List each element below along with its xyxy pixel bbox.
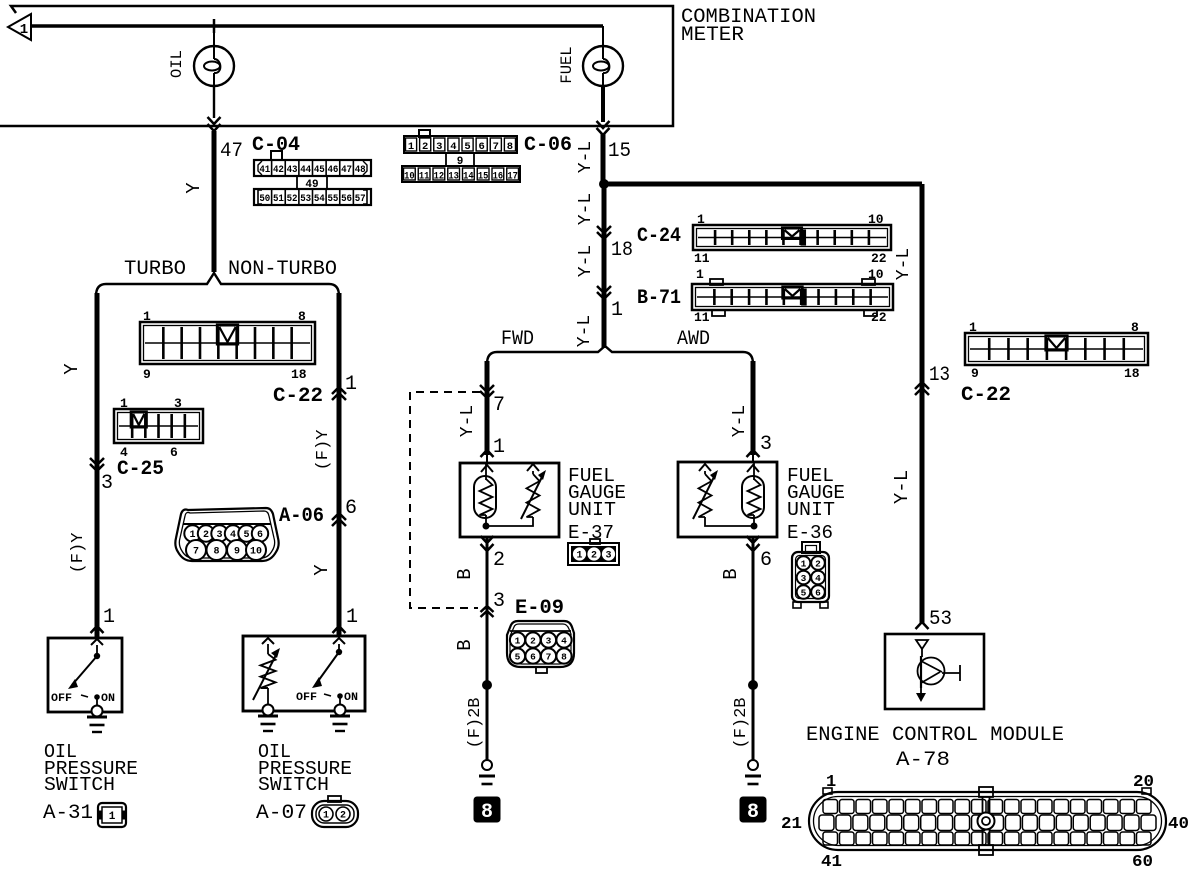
svg-text:42: 42 [273, 164, 284, 176]
wire label Y-L (right bus) [894, 248, 914, 280]
svg-text:B: B [454, 639, 476, 650]
svg-text:44: 44 [300, 164, 311, 176]
ECM input triangle [916, 640, 928, 649]
svg-text:SWITCH: SWITCH [44, 774, 115, 796]
svg-text:Y-L: Y-L [575, 315, 595, 347]
harness arrow 3 (TURBO) [90, 458, 113, 495]
svg-text:4: 4 [561, 635, 567, 646]
connector C-24 label [637, 225, 681, 248]
svg-text:1: 1 [345, 373, 357, 396]
svg-text:52: 52 [287, 193, 298, 205]
combination meter box [0, 6, 673, 126]
pin arrow 1 into E-37 [481, 436, 506, 463]
ground splice node (AWD) [748, 680, 758, 690]
E-37 sender resistor in float (capsule) [474, 463, 496, 523]
ground ref 8 (FWD) [474, 797, 500, 824]
A-07 switch symbol [312, 638, 345, 704]
svg-text:10: 10 [868, 267, 884, 282]
svg-text:6: 6 [345, 497, 357, 520]
svg-text:22: 22 [871, 251, 887, 266]
svg-text:1: 1 [408, 141, 414, 153]
E-36 internal wire [705, 517, 754, 526]
A-07 sender resistor (variable) [253, 638, 280, 705]
svg-text:1: 1 [493, 436, 505, 459]
wire label Y-L [576, 141, 596, 173]
label FUEL GAUGE UNIT E-37 [568, 465, 626, 544]
svg-text:47: 47 [341, 164, 352, 176]
svg-text:OFF: OFF [296, 692, 317, 704]
svg-text:Y: Y [61, 363, 83, 375]
E-37 variable resistor [521, 464, 546, 519]
svg-text:14: 14 [463, 172, 474, 183]
pin label 15 [608, 140, 631, 163]
svg-text:7: 7 [193, 547, 199, 558]
svg-text:50: 50 [259, 193, 270, 205]
C-24 pin labels [694, 212, 887, 266]
svg-text:8: 8 [298, 309, 306, 324]
wire Y-L center vertical to FWD/AWD split [602, 184, 607, 348]
indicator lamp OIL [194, 26, 234, 86]
svg-text:1: 1 [120, 396, 128, 411]
svg-text:46: 46 [327, 164, 338, 176]
svg-text:16: 16 [493, 172, 504, 183]
svg-text:11: 11 [419, 172, 430, 183]
wire AWD branch [751, 361, 756, 455]
svg-text:13: 13 [448, 172, 459, 183]
svg-text:1: 1 [323, 811, 329, 822]
svg-text:C-04: C-04 [252, 134, 300, 157]
connector C-25 label [117, 458, 164, 481]
wire label (F)2B [732, 697, 751, 748]
svg-text:B: B [454, 568, 476, 579]
svg-text:9: 9 [234, 547, 240, 558]
svg-text:A-07: A-07 [256, 802, 307, 825]
engine control module box [885, 634, 984, 709]
label NON-TURBO [228, 258, 337, 281]
pin arrow 3 into E-36 [747, 433, 773, 462]
wire label Y-L [576, 245, 596, 277]
wire E-37 pin 2 to ground [481, 536, 494, 765]
label OFF [51, 693, 72, 705]
svg-text:7: 7 [493, 141, 499, 153]
svg-text:Y-L: Y-L [730, 405, 750, 437]
label OIL PRESSURE SWITCH (A-07) [258, 741, 352, 796]
svg-text:51: 51 [273, 193, 284, 205]
svg-text:8: 8 [481, 801, 493, 824]
svg-text:1: 1 [826, 773, 836, 792]
E-36 sender resistor in float (capsule) [742, 463, 764, 523]
svg-text:17: 17 [507, 172, 518, 183]
svg-text:10: 10 [404, 172, 415, 183]
harness arrow 1 [597, 286, 623, 322]
svg-text:E-37: E-37 [568, 522, 614, 544]
svg-text:(F)2B: (F)2B [466, 697, 485, 748]
label OIL (vertical) [168, 50, 186, 78]
oil pressure switch A-07 box [243, 636, 365, 711]
svg-text:6: 6 [760, 549, 772, 572]
split bracket FWD/AWD [487, 346, 753, 364]
label OFF [296, 692, 317, 704]
wire label Y (TURBO) [61, 363, 83, 375]
E-36 node (junction) [751, 523, 758, 530]
svg-text:3: 3 [493, 590, 505, 613]
label ON [101, 693, 115, 705]
svg-text:Y-L: Y-L [894, 248, 914, 280]
svg-text:1: 1 [696, 267, 704, 282]
connector C-22 (left) label [273, 385, 323, 408]
ground ref 8 (AWD) [740, 797, 766, 824]
svg-text:(F)Y: (F)Y [69, 533, 88, 574]
svg-text:18: 18 [1124, 366, 1140, 381]
svg-text:48: 48 [355, 164, 366, 176]
connector A-31 label [43, 802, 93, 825]
svg-text:3: 3 [436, 141, 442, 153]
ground at A-31 [87, 706, 107, 733]
svg-text:10: 10 [868, 212, 884, 227]
svg-text:1: 1 [801, 558, 807, 569]
pin label 47 [220, 140, 243, 163]
svg-text:11: 11 [694, 310, 710, 325]
svg-text:1: 1 [697, 212, 705, 227]
junction tick at OIL branch [213, 19, 216, 33]
svg-text:18: 18 [291, 367, 307, 382]
fuel gauge unit E-37 box [460, 463, 559, 537]
split bracket TURBO/NON-TURBO [96, 273, 339, 296]
svg-text:9: 9 [971, 366, 979, 381]
pin arrow 1 into A-07 [333, 606, 359, 633]
svg-text:53: 53 [929, 608, 952, 631]
svg-text:C-22: C-22 [961, 384, 1011, 407]
svg-text:18: 18 [611, 239, 633, 262]
svg-text:3: 3 [801, 573, 807, 584]
svg-text:2: 2 [591, 551, 597, 562]
wire Y-L right vertical to ECM pin 53 [920, 184, 925, 624]
svg-text:2: 2 [203, 530, 209, 541]
label OIL PRESSURE SWITCH (A-31) [44, 741, 138, 796]
label AWD [677, 328, 710, 351]
svg-text:TURBO: TURBO [124, 258, 186, 281]
ground at A-07 switch [330, 705, 350, 732]
connector C-04 [254, 151, 371, 205]
svg-text:6: 6 [479, 141, 485, 153]
svg-text:ON: ON [344, 692, 358, 704]
svg-text:4: 4 [450, 141, 456, 153]
wire label Y-L (FWD) [458, 405, 478, 437]
connector C-04 label [252, 134, 300, 157]
E-37 internal wire [486, 517, 533, 526]
wire Y-L bus to right (to ECM) [604, 182, 922, 187]
svg-text:OIL: OIL [168, 50, 186, 78]
wire label B [454, 568, 476, 579]
svg-text:8: 8 [507, 141, 513, 153]
label ON [344, 692, 358, 704]
E-36 variable resistor [693, 464, 718, 519]
svg-text:A-31: A-31 [43, 802, 93, 825]
indicator lamp FUEL [583, 26, 623, 86]
connector E-37 icon [568, 539, 619, 565]
connector A-78 [809, 787, 1166, 855]
svg-text:15: 15 [478, 172, 489, 183]
svg-text:2: 2 [815, 558, 821, 569]
svg-text:20: 20 [1133, 773, 1154, 792]
C-22 right pin labels [969, 320, 1140, 381]
svg-text:C-06: C-06 [524, 134, 572, 157]
svg-text:NON-TURBO: NON-TURBO [228, 258, 337, 281]
svg-text:B-71: B-71 [637, 287, 681, 310]
svg-text:7: 7 [546, 651, 552, 662]
svg-text:8: 8 [561, 651, 567, 662]
connector C-25 [114, 409, 203, 443]
svg-text:41: 41 [259, 164, 270, 176]
harness arrow 7 (FWD) [480, 385, 505, 417]
svg-text:UNIT: UNIT [568, 499, 616, 521]
harness arrow 13 [915, 364, 950, 395]
svg-text:1: 1 [109, 811, 116, 823]
pin arrow 53 into ECM [916, 608, 953, 631]
label COMBINATION METER [681, 6, 816, 47]
svg-text:5: 5 [464, 141, 470, 153]
wire label (F)2B [466, 697, 485, 748]
connector E-09 [507, 621, 574, 673]
svg-text:12: 12 [434, 172, 445, 183]
svg-text:8: 8 [1131, 320, 1139, 335]
svg-text:2: 2 [422, 141, 428, 153]
B-71 pin labels [694, 267, 887, 325]
body ground (FWD) [479, 760, 495, 784]
ground at A-07 sender [258, 705, 278, 732]
svg-text:A-06: A-06 [279, 505, 324, 528]
oil pressure switch A-31 box [48, 638, 122, 712]
svg-text:6: 6 [815, 587, 821, 598]
connector A-07 icon [312, 796, 358, 827]
svg-text:Y: Y [311, 564, 333, 576]
C-22 left pin labels [143, 309, 307, 382]
svg-text:57: 57 [355, 193, 366, 205]
wire TURBO branch (left vertical) [95, 293, 100, 638]
svg-text:21: 21 [781, 815, 802, 834]
dashed option wire (FWD/E-09 variant) [410, 392, 480, 608]
svg-text:4: 4 [815, 573, 821, 584]
wire label Y [183, 182, 205, 194]
svg-text:2: 2 [340, 811, 346, 822]
svg-text:1: 1 [576, 551, 582, 562]
svg-text:C-25: C-25 [117, 458, 164, 481]
wire label B [720, 568, 742, 579]
svg-text:60: 60 [1132, 853, 1153, 872]
svg-text:6: 6 [170, 445, 178, 460]
pin label 6 [760, 549, 772, 572]
svg-text:ON: ON [101, 693, 115, 705]
svg-text:3: 3 [760, 433, 772, 456]
wire E-36 pin 6 to ground [747, 536, 760, 765]
E-37 node (junction) [483, 523, 490, 530]
label TURBO [124, 258, 186, 281]
svg-text:40: 40 [1168, 815, 1189, 834]
connector C-06 [402, 130, 520, 183]
svg-text:(F)2B: (F)2B [732, 697, 751, 748]
ground splice node (FWD) [482, 680, 492, 690]
svg-text:UNIT: UNIT [787, 499, 835, 521]
pin arrow 1 into A-31 [91, 606, 116, 633]
svg-text:E-36: E-36 [787, 522, 833, 544]
svg-text:55: 55 [327, 193, 338, 205]
C-25 pin labels [120, 396, 182, 460]
svg-text:OFF: OFF [51, 693, 72, 705]
ECM transistor Q (driver) [916, 649, 960, 702]
wire label Y-L [576, 193, 596, 225]
wire label Y-L (right bus lower) [891, 470, 913, 504]
svg-text:FWD: FWD [501, 328, 534, 351]
svg-text:1: 1 [346, 606, 358, 629]
svg-text:(F)Y: (F)Y [314, 430, 333, 471]
wire label (F)Y (TURBO) [69, 533, 88, 574]
connector C-06 label [524, 134, 572, 157]
wire FWD branch [485, 361, 490, 455]
harness arrow 6 (NON-TURBO) [332, 497, 357, 526]
connector A-07 label [256, 802, 307, 825]
svg-text:5: 5 [515, 651, 521, 662]
svg-text:AWD: AWD [677, 328, 710, 351]
wire label -L [575, 315, 595, 347]
svg-text:Y: Y [183, 182, 205, 194]
svg-text:B: B [720, 568, 742, 579]
label ENGINE CONTROL MODULE [806, 724, 1064, 747]
svg-text:Y-L: Y-L [458, 405, 478, 437]
svg-text:1: 1 [611, 299, 623, 322]
svg-text:43: 43 [287, 164, 298, 176]
connector B-71 [692, 279, 893, 316]
svg-text:47: 47 [220, 140, 243, 163]
connector C-24 [693, 225, 891, 250]
harness arrow 1 (NON-TURBO) [332, 373, 357, 400]
svg-text:45: 45 [314, 164, 325, 176]
wire FUEL lamp to connector C-06 pin 15 [597, 86, 610, 184]
svg-text:A-78: A-78 [896, 749, 950, 772]
svg-text:C-24: C-24 [637, 225, 681, 248]
connector C-22 (left) [140, 322, 315, 364]
svg-text:41: 41 [821, 853, 842, 872]
svg-text:6: 6 [530, 651, 536, 662]
connector A-06 [175, 508, 278, 561]
svg-text:Y-L: Y-L [576, 193, 596, 225]
svg-text:METER: METER [681, 24, 744, 47]
label FUEL GAUGE UNIT E-36 [787, 465, 845, 544]
harness arrow 3 (E-09) [481, 590, 506, 617]
svg-text:1: 1 [515, 635, 521, 646]
connector B-71 label [637, 287, 681, 310]
connector E-36 icon [792, 542, 829, 608]
wire label Y (NON-TURBO lower) [311, 564, 333, 576]
junction node (Y-L splice) [599, 179, 609, 189]
svg-text:5: 5 [801, 587, 807, 598]
label A-78 [896, 749, 950, 772]
svg-text:3: 3 [101, 472, 113, 495]
svg-text:9: 9 [143, 367, 151, 382]
connector C-22 (right) label [961, 384, 1011, 407]
svg-text:7: 7 [493, 394, 505, 417]
svg-text:1: 1 [969, 320, 977, 335]
connector E-09 label [515, 597, 564, 620]
connector A-31 icon [98, 803, 126, 827]
pin label 2 [493, 549, 505, 572]
label FWD [501, 328, 534, 351]
svg-text:3: 3 [605, 551, 611, 562]
svg-text:2: 2 [493, 549, 505, 572]
svg-text:1: 1 [103, 606, 115, 629]
svg-text:10: 10 [250, 547, 262, 558]
svg-text:1: 1 [20, 22, 28, 38]
svg-text:Y-L: Y-L [891, 470, 913, 504]
svg-text:E-09: E-09 [515, 597, 564, 620]
svg-text:2: 2 [530, 635, 536, 646]
svg-text:15: 15 [608, 140, 631, 163]
wire OIL lamp to connector C-04 pin 47 [208, 86, 221, 272]
A-78 pin labels [781, 773, 1189, 872]
svg-text:C-22: C-22 [273, 385, 323, 408]
svg-text:11: 11 [694, 251, 710, 266]
wire label B [454, 639, 476, 650]
harness arrow 18 [597, 226, 633, 262]
svg-text:SWITCH: SWITCH [258, 774, 329, 796]
svg-text:13: 13 [929, 364, 950, 387]
wire NON-TURBO branch (right vertical) [337, 293, 342, 636]
svg-text:FUEL: FUEL [558, 46, 576, 83]
svg-text:53: 53 [300, 193, 311, 205]
fuel gauge unit E-36 box [678, 462, 777, 537]
connector C-22 (right) [965, 333, 1148, 365]
svg-text:3: 3 [174, 396, 182, 411]
svg-text:22: 22 [871, 310, 887, 325]
body ground (AWD) [745, 760, 761, 784]
svg-text:1: 1 [143, 309, 151, 324]
A-31 switch symbol [68, 639, 103, 705]
svg-text:3: 3 [546, 635, 552, 646]
svg-text:Y-L: Y-L [576, 141, 596, 173]
wire from arrow 1 to FUEL lamp [31, 24, 603, 28]
svg-text:Y-L: Y-L [576, 245, 596, 277]
svg-text:56: 56 [341, 193, 352, 205]
svg-text:5: 5 [243, 530, 249, 541]
wire label Y-L (AWD) [730, 405, 750, 437]
off-page connector arrow 1 [8, 14, 31, 40]
svg-text:8: 8 [747, 801, 759, 824]
svg-text:54: 54 [314, 193, 325, 205]
label FUEL (vertical) [558, 46, 576, 83]
connector A-06 label [279, 505, 324, 528]
svg-text:ENGINE CONTROL MODULE: ENGINE CONTROL MODULE [806, 724, 1064, 747]
svg-text:8: 8 [213, 547, 219, 558]
wire label (F)Y (NON-TURBO) [314, 430, 333, 471]
